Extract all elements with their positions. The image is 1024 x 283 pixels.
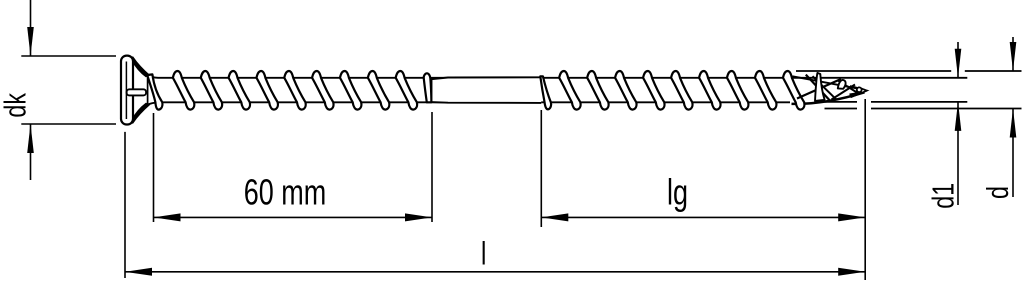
svg-text:lg: lg [667,171,688,212]
svg-text:l: l [481,235,486,271]
svg-text:dk: dk [0,93,32,118]
svg-text:60 mm: 60 mm [244,172,326,213]
svg-text:d: d [980,186,1015,199]
svg-text:d1: d1 [925,183,960,209]
